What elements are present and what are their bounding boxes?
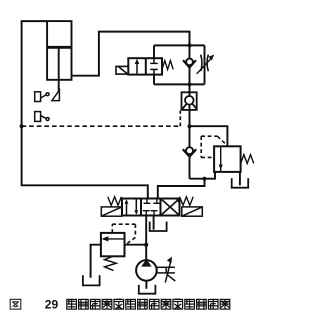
wire bypass loop bottom rail <box>154 83 205 85</box>
U1 left solenoid <box>101 207 121 216</box>
pump P1 <box>136 260 157 281</box>
U1 right spring <box>180 197 194 206</box>
check valve C1 (in bypass loop) <box>183 45 196 84</box>
solenoid of valve V2 (2/2 bypass valve) <box>116 66 128 74</box>
cylinder piston <box>47 46 71 49</box>
relief valve pilot line (dashed) <box>112 224 135 244</box>
wire loop to pilot-operated check valve <box>189 84 191 92</box>
sequence valve drain wire <box>239 172 241 186</box>
node P relief tap <box>144 243 148 247</box>
U1 centre position blocked ports <box>143 199 161 216</box>
pump variable arrow <box>165 261 171 283</box>
cylinder body <box>47 21 71 80</box>
U1 right position crossed arrows <box>162 200 179 215</box>
node B junction <box>188 124 192 128</box>
wire 2/2 valve bottom port <box>153 75 155 85</box>
pilot-operated check valve C2 <box>182 92 198 110</box>
U1 left position parallel arrows <box>126 203 128 215</box>
cylinder piston rod <box>58 49 60 92</box>
wire T port to tank <box>153 216 155 230</box>
throttle valve (adjustable) <box>197 55 215 74</box>
svg-text:29: 29 <box>45 298 59 312</box>
wire cylinder rod port to top rail <box>72 32 190 76</box>
sequence valve internal flow arrow <box>220 146 222 172</box>
limit switch S1 <box>35 92 49 102</box>
caption "图" glyph <box>10 299 21 309</box>
tank T2 (main valve return) <box>149 222 168 231</box>
sequence valve outlet wire <box>190 172 216 179</box>
node loop bottom <box>188 82 192 86</box>
wire pilot check valve to node B <box>189 110 191 147</box>
wire P port to pump <box>145 216 147 261</box>
pump shaft box <box>157 267 166 273</box>
pump suction wire <box>145 281 147 289</box>
wire relief valve inlet <box>125 244 147 246</box>
relief valve internal arrow <box>104 238 125 240</box>
wire 2/2 valve top port <box>153 45 155 58</box>
wire throttle branch <box>204 45 206 84</box>
tank T4 (sequence valve drain) <box>231 178 249 188</box>
tank T1 (relief valve) <box>82 275 101 285</box>
check valve C3 (bypass of sequence valve) <box>183 147 196 179</box>
U1 left spring <box>108 197 122 206</box>
2/2 valve spring <box>162 61 173 70</box>
2/2 valve flow arrow (left position) <box>136 62 138 74</box>
relief valve spring <box>105 256 117 270</box>
pilot line (dashed) to pilot-operated check valve <box>22 125 181 127</box>
wire node B to sequence valve inlet <box>190 126 228 146</box>
limit switch S2 <box>35 112 49 122</box>
2/2 solenoid valve body <box>128 58 162 74</box>
tank T3 (pump suction) <box>138 285 156 294</box>
cam on rod end <box>52 90 60 100</box>
U1 right solenoid <box>182 207 203 216</box>
main directional valve U1 (4/3 solenoid valve) body <box>122 199 180 216</box>
sequence valve pilot line (dashed) <box>201 136 226 157</box>
sequence valve body <box>214 146 241 172</box>
node loop top <box>188 43 192 47</box>
wire relief valve outlet to tank <box>91 245 101 278</box>
node A-line pilot tap <box>20 124 24 128</box>
wire junction to main valve port B <box>158 179 205 199</box>
wire bypass loop top rail <box>154 44 205 46</box>
node sequence outlet junction <box>203 177 207 181</box>
caption chinese text (glyph boxes) <box>67 299 230 309</box>
wire cylinder cap port to left rail <box>22 21 148 199</box>
sequence valve spring <box>241 155 254 164</box>
2/2 valve blocked ports (right position) <box>150 58 158 74</box>
relief valve body <box>101 233 125 256</box>
